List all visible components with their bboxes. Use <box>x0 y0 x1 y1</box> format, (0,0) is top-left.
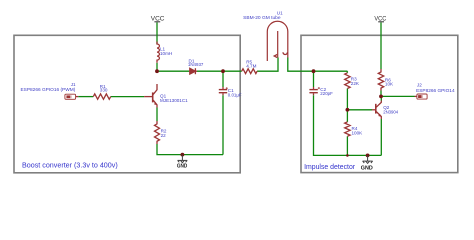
svg-text:VCC: VCC <box>374 16 387 22</box>
svg-text:22K: 22K <box>351 81 360 86</box>
svg-text:330: 330 <box>100 88 108 93</box>
svg-text:1N4937: 1N4937 <box>188 62 204 67</box>
svg-text:Impulse detector: Impulse detector <box>304 162 355 171</box>
svg-text:ESP8266 GPIO14: ESP8266 GPIO14 <box>416 88 455 93</box>
svg-text:J2: J2 <box>417 83 422 88</box>
svg-text:Boost converter (3.3v to 400v): Boost converter (3.3v to 400v) <box>22 161 118 170</box>
svg-text:100K: 100K <box>352 131 364 136</box>
svg-text:4.7M: 4.7M <box>246 63 256 68</box>
svg-text:10K: 10K <box>385 82 394 87</box>
svg-text:MJE13001C1: MJE13001C1 <box>160 98 188 103</box>
svg-text:10mH: 10mH <box>160 51 172 56</box>
svg-text:SBM-20 GM tube: SBM-20 GM tube <box>243 15 281 20</box>
svg-text:0.01µF: 0.01µF <box>228 92 242 97</box>
svg-text:GND: GND <box>177 163 187 169</box>
svg-text:22: 22 <box>161 133 167 138</box>
svg-text:2N3904: 2N3904 <box>383 109 398 114</box>
svg-text:GND: GND <box>361 165 373 171</box>
svg-text:220pF: 220pF <box>320 91 333 96</box>
svg-text:VCC: VCC <box>151 16 165 22</box>
svg-text:ESP8266 GPIO16 (PWM): ESP8266 GPIO16 (PWM) <box>21 87 76 92</box>
